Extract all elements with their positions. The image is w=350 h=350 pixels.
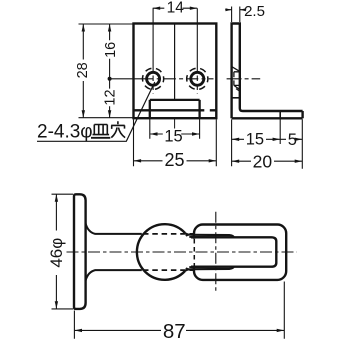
svg-text:14: 14: [167, 0, 185, 16]
svg-text:46φ: 46φ: [47, 238, 66, 268]
svg-text:16: 16: [103, 42, 119, 58]
svg-text:5: 5: [288, 131, 297, 149]
svg-text:25: 25: [164, 150, 184, 170]
svg-text:15: 15: [246, 131, 264, 149]
svg-text:28: 28: [75, 62, 91, 78]
svg-text:20: 20: [253, 152, 273, 172]
svg-text:15: 15: [164, 128, 182, 146]
svg-text:2-4.3φ: 2-4.3φ: [37, 122, 93, 143]
svg-text:12: 12: [103, 89, 119, 105]
svg-text:2.5: 2.5: [244, 3, 265, 20]
svg-text:87: 87: [163, 320, 186, 343]
